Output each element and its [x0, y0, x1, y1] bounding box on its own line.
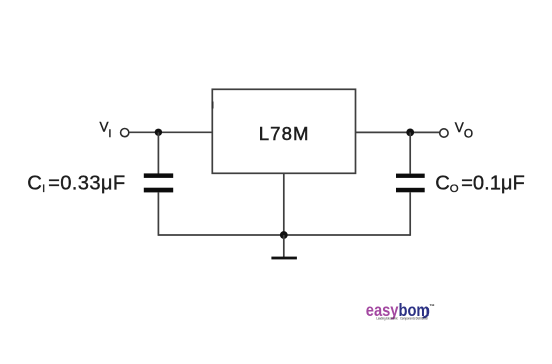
wire output node down to C2 [409, 132, 411, 173]
wire box output to VO [356, 131, 440, 133]
easybom logo [366, 301, 430, 321]
node VI terminal circle [121, 129, 129, 137]
capacitor C2 plates [396, 174, 425, 178]
svg-text:CI=0.33μF: CI=0.33μF [27, 172, 125, 195]
junction ground node [280, 231, 288, 239]
svg-text:L78M: L78M [259, 123, 310, 144]
wire stub to ground [283, 235, 285, 257]
svg-text:V: V [100, 120, 109, 135]
capacitor C1 plates [144, 173, 173, 178]
wire C2 down to bottom rail [409, 192, 411, 236]
regulator U1 L78M box [212, 89, 355, 173]
wire box common pin down to rail [283, 173, 285, 235]
svg-text:CO=0.1μF: CO=0.1μF [435, 172, 525, 195]
pin 1 mark on left edge [212, 102, 214, 109]
svg-text:Leading Electronic: Leading Electronic [376, 317, 398, 321]
ground symbol [271, 257, 297, 260]
svg-text:O: O [464, 127, 473, 141]
wire bottom ground rail [158, 234, 410, 236]
wire C1 down to bottom rail [157, 192, 159, 236]
svg-text:V: V [455, 120, 464, 135]
wire input node down to C1 [157, 132, 159, 173]
logo m tail [424, 309, 429, 318]
junction input node [155, 129, 162, 136]
svg-text:I: I [108, 128, 111, 140]
junction output node [406, 129, 414, 137]
wire input VI to box [129, 131, 212, 133]
svg-text:™: ™ [429, 304, 434, 310]
node VO terminal circle [440, 129, 448, 137]
svg-text:Components Distributor: Components Distributor [400, 317, 428, 321]
